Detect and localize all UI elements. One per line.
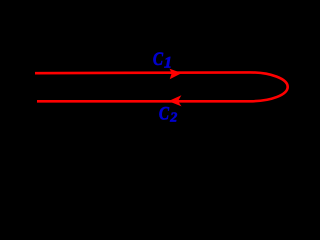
svg-text:1: 1 (164, 55, 172, 72)
svg-text:C: C (159, 103, 170, 124)
svg-text:2: 2 (169, 110, 177, 125)
svg-text:C: C (153, 48, 164, 69)
